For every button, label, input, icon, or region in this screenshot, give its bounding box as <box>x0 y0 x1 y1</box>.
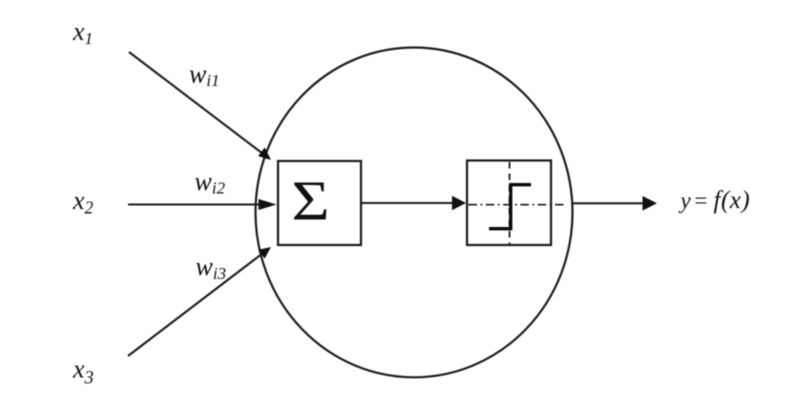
svg-text:wi2: wi2 <box>195 167 226 197</box>
svg-text:wi3: wi3 <box>196 252 227 283</box>
activation vertical dashed axis <box>509 162 511 244</box>
arrowhead output <box>643 196 658 211</box>
wire sum to activation <box>362 202 455 204</box>
wire input x3 <box>128 254 262 356</box>
step function curve <box>489 185 531 229</box>
activation box U2 <box>467 161 551 246</box>
arrowhead input x3 <box>258 247 271 259</box>
svg-text:f(x): f(x) <box>714 187 751 214</box>
arrowhead input x1 <box>258 147 271 160</box>
wire input x1 <box>129 52 262 153</box>
svg-text:wi1: wi1 <box>189 60 220 90</box>
activation horizontal dash-dot axis <box>469 204 566 206</box>
svg-text:Σ: Σ <box>292 171 330 233</box>
svg-text:x1: x1 <box>72 17 93 48</box>
arrowhead sum to activation <box>452 196 466 210</box>
svg-text:y: y <box>679 188 692 213</box>
svg-text:x3: x3 <box>72 355 94 389</box>
arrowhead input x2 <box>259 199 277 210</box>
neuron body ellipse <box>256 48 573 378</box>
wire output <box>573 202 646 204</box>
wire input x2 <box>128 203 260 205</box>
summation box U1 <box>278 161 361 245</box>
svg-text:x2: x2 <box>72 186 94 218</box>
svg-text:=: = <box>693 188 709 213</box>
